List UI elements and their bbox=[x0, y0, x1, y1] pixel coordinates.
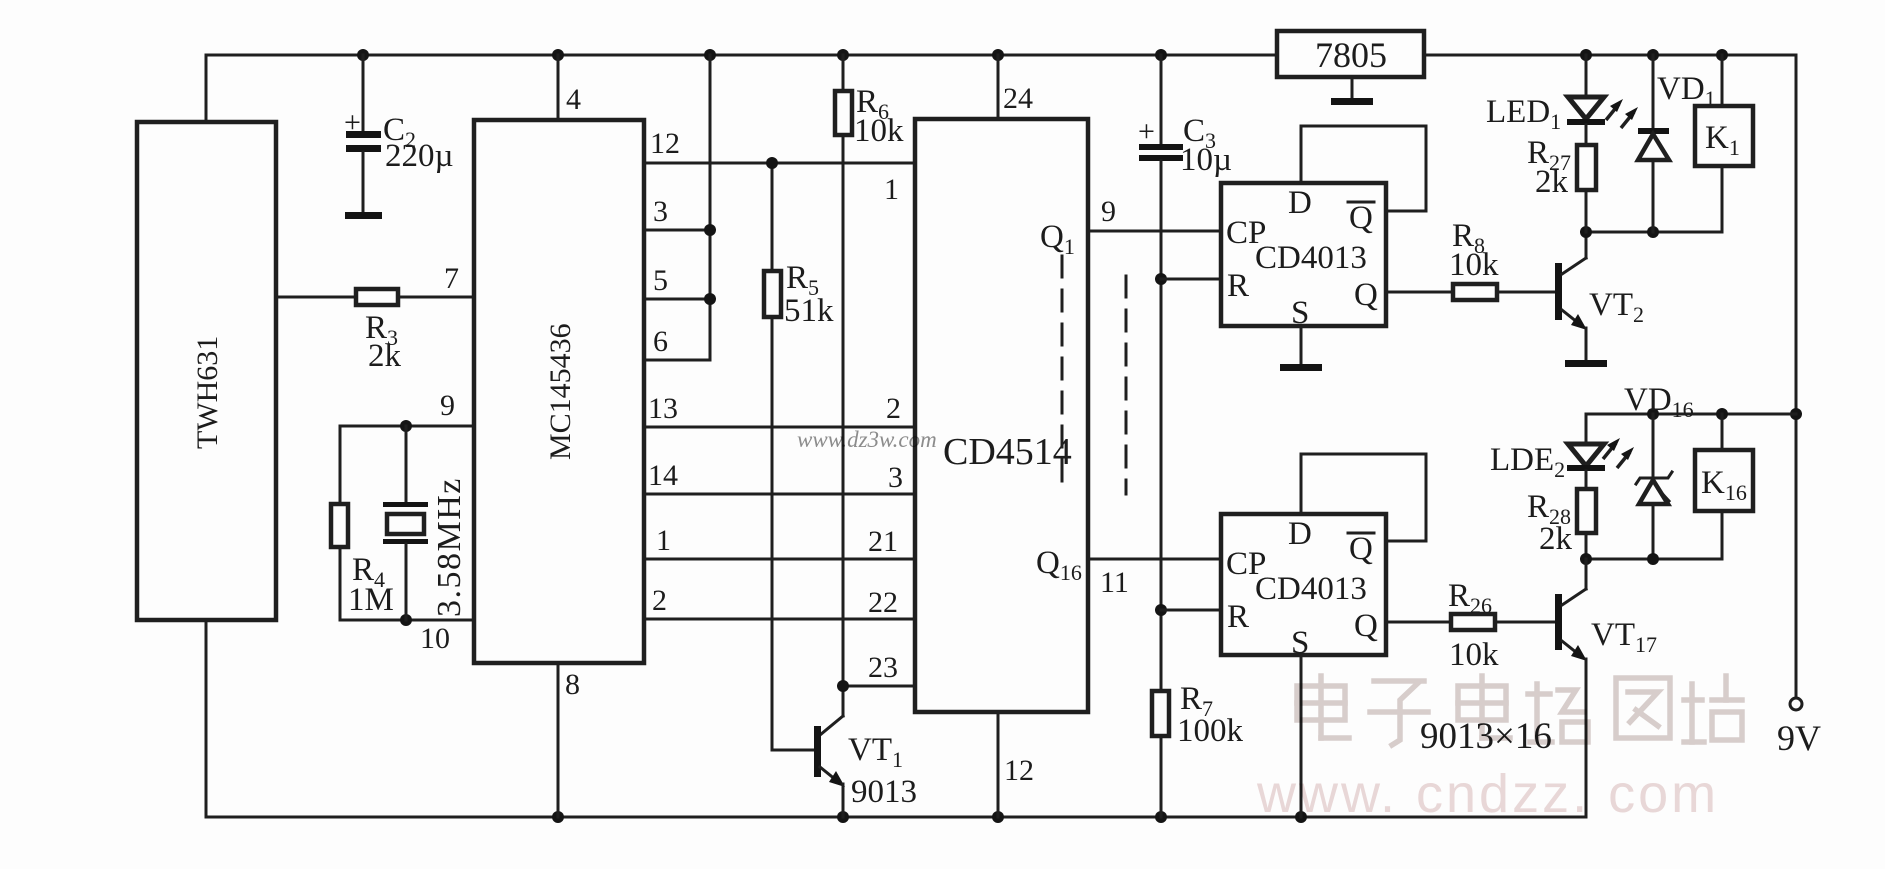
svg-text:MC145436: MC145436 bbox=[544, 323, 577, 460]
svg-text:LDE2: LDE2 bbox=[1490, 442, 1565, 482]
svg-text:R: R bbox=[1227, 599, 1249, 635]
wire: pin 3 stub bbox=[644, 229, 710, 232]
resistor R28 2k bbox=[1527, 489, 1596, 559]
svg-text:7805: 7805 bbox=[1315, 35, 1387, 75]
node: VT17 collector junction bbox=[1580, 553, 1592, 565]
relay K16 bbox=[1695, 414, 1753, 559]
ground: VT2 emitter bbox=[1565, 360, 1607, 367]
svg-text:2k: 2k bbox=[1535, 164, 1569, 200]
svg-text:10k: 10k bbox=[1449, 247, 1499, 283]
node: K16 top junction bbox=[1716, 408, 1728, 420]
wire: VT17 collector node line bbox=[1586, 558, 1722, 561]
svg-text:Q: Q bbox=[1349, 200, 1373, 236]
crystal 3.58MHz bbox=[383, 426, 468, 620]
wire: pin 12 line to CD4514 pin 1 bbox=[644, 162, 915, 165]
node: VD16 top junction bbox=[1647, 408, 1659, 420]
node: pin5 junction bbox=[704, 293, 716, 305]
svg-text:3: 3 bbox=[653, 195, 668, 228]
wire: pin 8 stub to ground rail bbox=[557, 663, 560, 817]
char zi bbox=[1374, 678, 1424, 684]
svg-text:8: 8 bbox=[565, 668, 580, 701]
LED LED1 bbox=[1486, 55, 1605, 145]
wire: pin 13 line to CD4514 pin 2 bbox=[644, 426, 915, 429]
zener diode VD16 bbox=[1636, 414, 1672, 559]
svg-text:9013: 9013 bbox=[851, 774, 917, 810]
svg-text:100k: 100k bbox=[1177, 713, 1244, 749]
node: R5 top junction on pin12 line bbox=[766, 157, 778, 169]
capacitor C3 10u bbox=[1138, 55, 1232, 691]
svg-text:Q: Q bbox=[1349, 531, 1373, 567]
resistor R7 100k bbox=[1152, 681, 1244, 817]
wire: pin 6 stub bbox=[644, 359, 710, 362]
svg-text:1M: 1M bbox=[348, 582, 394, 618]
ic MC145436 bbox=[474, 120, 644, 663]
svg-text:23: 23 bbox=[868, 651, 898, 684]
wire: pin 10 line bbox=[340, 619, 474, 622]
svg-text:CD4514: CD4514 bbox=[943, 431, 1072, 473]
svg-text:21: 21 bbox=[868, 525, 898, 558]
svg-text:22: 22 bbox=[868, 586, 898, 619]
wire: Q1 output line to CP of CD4013 no.1 bbox=[1088, 230, 1221, 233]
resistor R8 10k bbox=[1386, 218, 1557, 300]
svg-text:TWH631: TWH631 bbox=[191, 336, 224, 449]
LDE2 light arrows bbox=[1603, 438, 1634, 468]
svg-text:5: 5 bbox=[653, 264, 668, 297]
wire: D to Qbar feedback loop FF1 bbox=[1301, 126, 1426, 211]
svg-text:9: 9 bbox=[1101, 195, 1116, 228]
node: crystal bottom junction bbox=[400, 614, 412, 626]
node: C3 to R input FF1 bbox=[1155, 273, 1167, 285]
ic CD4514 bbox=[915, 119, 1088, 712]
wire: ground bottom rail bbox=[206, 816, 1586, 819]
char dian 2 bbox=[1479, 676, 1485, 738]
svg-text:9V: 9V bbox=[1777, 718, 1821, 758]
wire: dashed continuation line 1 bbox=[1061, 256, 1064, 494]
resistor R5 51k bbox=[764, 163, 834, 750]
svg-text:www.dz3w.com: www.dz3w.com bbox=[797, 427, 937, 452]
wire: VD16/K16 row top rail bbox=[1586, 413, 1796, 416]
svg-text:2k: 2k bbox=[1539, 521, 1573, 557]
svg-text:10: 10 bbox=[420, 622, 450, 655]
svg-text:24: 24 bbox=[1003, 82, 1033, 115]
wire: pin 14 line to CD4514 pin 3 bbox=[644, 493, 915, 496]
svg-text:D: D bbox=[1288, 185, 1312, 221]
flip-flop CD4013 no.1 bbox=[1221, 183, 1386, 331]
node: junction dots on bottom rail bbox=[552, 811, 1307, 823]
svg-text:Q: Q bbox=[1354, 608, 1378, 644]
resistor R27 2k bbox=[1527, 135, 1596, 232]
char tu bbox=[1616, 678, 1670, 738]
wire: D to Qbar feedback loop FF2 bbox=[1301, 454, 1426, 541]
terminal 9V bbox=[1777, 698, 1821, 758]
wire: pin 23 line bbox=[843, 685, 915, 688]
ic TWH631 bbox=[137, 122, 276, 620]
ground: 7805 gnd tab bbox=[1331, 77, 1373, 105]
svg-text:2k: 2k bbox=[368, 338, 402, 374]
svg-text:Q: Q bbox=[1354, 277, 1378, 313]
wire: dashed continuation line 2 bbox=[1125, 276, 1128, 494]
wire: pin 12 stub to ground rail bbox=[997, 712, 1000, 817]
svg-text:14: 14 bbox=[648, 459, 678, 492]
wire: pin 1 line to CD4514 pin 21 bbox=[644, 558, 915, 561]
svg-text:51k: 51k bbox=[784, 293, 834, 329]
wire: pin 24 stub bbox=[997, 55, 1000, 119]
svg-text:2: 2 bbox=[652, 584, 667, 617]
svg-text:1: 1 bbox=[884, 173, 899, 206]
svg-text:LED1: LED1 bbox=[1486, 94, 1561, 134]
node: R6/VT1 collector junction bbox=[837, 680, 849, 692]
svg-text:CD4013: CD4013 bbox=[1255, 240, 1367, 276]
transistor VT1 9013 bbox=[814, 716, 917, 817]
watermark chinese characters bbox=[1297, 676, 1742, 745]
svg-text:+: + bbox=[344, 106, 361, 139]
relay K1 bbox=[1695, 55, 1753, 232]
wire: Q16 output line to CP of CD4013 no.2 bbox=[1088, 558, 1221, 561]
svg-text:220µ: 220µ bbox=[385, 138, 454, 174]
svg-text:2: 2 bbox=[886, 392, 901, 425]
svg-text:10k: 10k bbox=[854, 113, 904, 149]
char zhan bbox=[1689, 684, 1695, 742]
ic 7805 voltage regulator bbox=[1277, 31, 1424, 77]
wire: TWH631 bottom to ground rail bbox=[205, 620, 208, 817]
svg-text:12: 12 bbox=[1004, 754, 1034, 787]
resistor R3 2k bbox=[276, 289, 474, 374]
svg-text:R: R bbox=[1227, 268, 1249, 304]
flip-flop CD4013 no.2 bbox=[1221, 514, 1386, 661]
wire: pin 2 line to CD4514 pin 22 bbox=[644, 618, 915, 621]
svg-text:D: D bbox=[1288, 516, 1312, 552]
char lu bbox=[1534, 684, 1540, 742]
svg-text:10k: 10k bbox=[1449, 637, 1499, 673]
wire: pin 5 stub bbox=[644, 298, 710, 301]
wire: +5V/right top rail (7805 output to right edge) bbox=[1424, 55, 1796, 697]
svg-text:6: 6 bbox=[653, 325, 668, 358]
capacitor C2 220u bbox=[344, 55, 454, 219]
LED1 light arrows bbox=[1606, 99, 1638, 128]
ground: S input FF1 bbox=[1280, 326, 1322, 371]
wire: S input FF2 to ground rail bbox=[1300, 655, 1303, 817]
LED LDE2 bbox=[1490, 414, 1605, 489]
wire: +9V top rail (left of 7805) bbox=[206, 55, 1277, 122]
node: VD1 bottom junction bbox=[1647, 226, 1659, 238]
svg-text:12: 12 bbox=[650, 127, 680, 160]
svg-text:4: 4 bbox=[566, 83, 581, 116]
resistor R4 1M bbox=[331, 426, 394, 620]
char dian 1 bbox=[1318, 676, 1324, 738]
wire: pin 9 line bbox=[340, 425, 474, 428]
wire: R input FF1 bbox=[1161, 278, 1221, 281]
wire: vertical bus pins 3,5,6 to +rail bbox=[709, 55, 712, 360]
svg-text:3: 3 bbox=[888, 461, 903, 494]
svg-text:9: 9 bbox=[440, 389, 455, 422]
svg-text:3.58MHz: 3.58MHz bbox=[431, 477, 468, 617]
svg-text:10µ: 10µ bbox=[1180, 142, 1232, 178]
svg-text:7: 7 bbox=[444, 262, 459, 295]
svg-text:www. cndzz. com: www. cndzz. com bbox=[1256, 764, 1719, 824]
node: junction dots on top rail bbox=[357, 49, 1802, 420]
transistor VT17 bbox=[1555, 559, 1657, 817]
wire: pin 4 stub bbox=[557, 55, 560, 120]
node: C3 to R input FF2 bbox=[1155, 604, 1167, 616]
resistor R6 10k bbox=[835, 55, 904, 716]
svg-text:11: 11 bbox=[1100, 566, 1129, 599]
wire: R input FF2 bbox=[1161, 609, 1221, 612]
svg-text:CD4013: CD4013 bbox=[1255, 571, 1367, 607]
node: crystal top junction bbox=[400, 420, 412, 432]
svg-text:13: 13 bbox=[648, 392, 678, 425]
diode VD1 bbox=[1638, 55, 1716, 232]
resistor R26 10k bbox=[1386, 578, 1557, 673]
node: pin3 junction bbox=[704, 224, 716, 236]
svg-text:1: 1 bbox=[656, 524, 671, 557]
node: VT2 collector junction bbox=[1580, 226, 1592, 238]
node: VD16 bottom junction bbox=[1647, 553, 1659, 565]
wire: collector node line K1 row bbox=[1586, 231, 1722, 234]
transistor VT2 bbox=[1555, 232, 1644, 362]
svg-text:+: + bbox=[1138, 115, 1155, 148]
